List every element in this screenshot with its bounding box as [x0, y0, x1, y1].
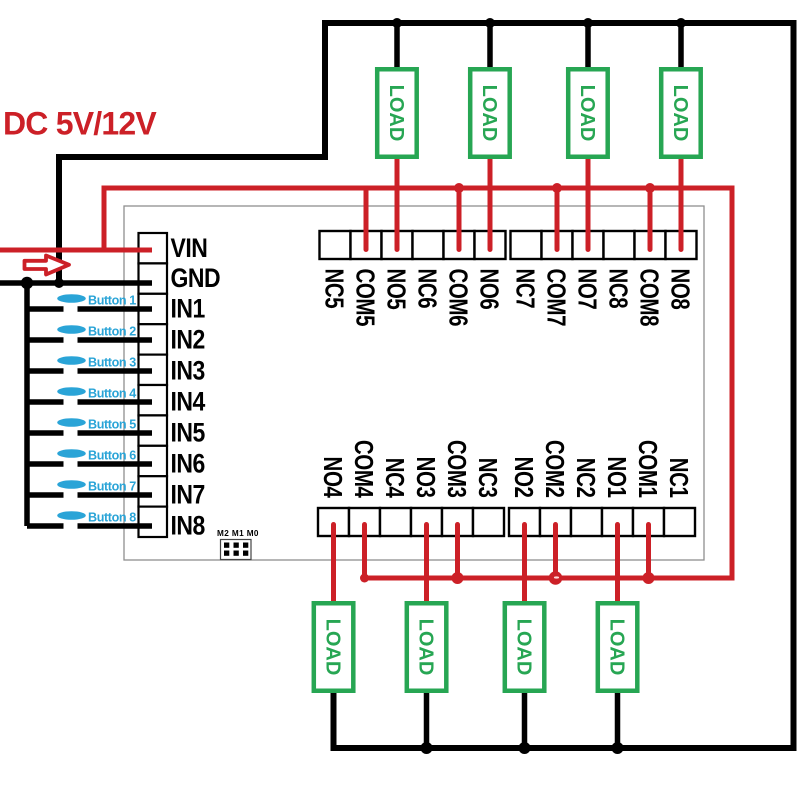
- wire: red NO2 terminal to LOAD2: [522, 525, 527, 602]
- terminal NO2 box: [509, 508, 540, 536]
- wire: red COM1 terminal to bottom COM rail: [646, 525, 651, 579]
- svg-text:NO3: NO3: [412, 457, 441, 498]
- svg-text:NC2: NC2: [572, 458, 601, 498]
- svg-text:NO4: NO4: [319, 457, 348, 498]
- button actuator Button 6: [57, 449, 86, 458]
- pin IN5 header box: [139, 415, 168, 445]
- load L7: [568, 69, 608, 157]
- wire: red VIN horizontal (DC+ input): [0, 248, 152, 253]
- junction: bottom rail / LOAD2: [519, 742, 531, 754]
- terminal COM3 box: [442, 508, 473, 536]
- button switch Button 8 wire segments: [27, 523, 152, 529]
- pin IN7 header box: [139, 476, 168, 506]
- svg-text:NO8: NO8: [666, 269, 695, 310]
- junction: bottom rail / LOAD1: [612, 742, 624, 754]
- svg-text:NC6: NC6: [413, 269, 442, 309]
- svg-text:LOAD: LOAD: [513, 619, 535, 676]
- terminal NC6 box: [413, 231, 444, 259]
- svg-text:COM3: COM3: [443, 440, 472, 498]
- terminal COM6 box: [444, 231, 475, 259]
- svg-text:IN1: IN1: [171, 294, 206, 324]
- button switch Button 5 wire segments: [27, 430, 152, 436]
- button switch Button 3 wire segments: [27, 368, 152, 374]
- pin IN4 header box: [139, 385, 168, 415]
- wire: black drop from LOAD2 to bottom rail: [522, 693, 528, 748]
- wire: red COM4 terminal to bottom COM rail: [362, 525, 367, 579]
- svg-text:NO7: NO7: [573, 269, 602, 310]
- terminal NC7 box: [511, 231, 542, 259]
- svg-text:COM5: COM5: [351, 269, 380, 327]
- power input arrow: [25, 256, 70, 275]
- terminal COM8 box: [635, 231, 666, 259]
- svg-text:NO6: NO6: [475, 268, 504, 309]
- terminal NC1 box: [664, 508, 695, 536]
- svg-text:NO1: NO1: [603, 457, 632, 498]
- svg-text:NO2: NO2: [510, 457, 539, 498]
- svg-text:Button 1: Button 1: [88, 294, 136, 308]
- load L3: [407, 603, 447, 691]
- wire: black drop from top rail to LOAD5: [394, 23, 400, 67]
- svg-text:NC3: NC3: [474, 458, 503, 498]
- svg-text:LOAD: LOAD: [478, 85, 500, 142]
- svg-text:COM6: COM6: [444, 269, 473, 327]
- wire: red NO3 terminal to LOAD3: [424, 525, 429, 602]
- junction: top rail / LOAD6: [485, 18, 495, 28]
- wire: red drop COM rail to COM6 terminal: [457, 188, 462, 250]
- terminal NC3 box: [473, 508, 504, 536]
- svg-text:LOAD: LOAD: [669, 85, 691, 142]
- load L4: [314, 603, 354, 691]
- svg-text:Button 3: Button 3: [88, 356, 136, 370]
- pin IN2 header box: [139, 324, 168, 354]
- junction: GND / supply negative: [54, 278, 64, 288]
- terminal COM2 box: [540, 508, 571, 536]
- button actuator Button 3: [57, 356, 86, 365]
- svg-text:Button 8: Button 8: [88, 511, 136, 525]
- svg-text:IN2: IN2: [171, 325, 205, 355]
- button actuator Button 1: [57, 294, 86, 303]
- wire: black drop from LOAD1 to bottom rail: [615, 693, 621, 748]
- terminal NC8 box: [604, 231, 635, 259]
- svg-text:Button 5: Button 5: [88, 418, 136, 432]
- terminal NO8 box: [666, 231, 697, 259]
- terminal NO7 box: [573, 231, 604, 259]
- button switch Button 6 wire segments: [27, 461, 152, 467]
- button actuator Button 4: [57, 387, 86, 396]
- button actuator Button 7: [57, 480, 86, 489]
- junction: bottom COM rail / COM1: [643, 572, 655, 584]
- wire: red COM2 terminal to bottom COM rail: [553, 525, 558, 579]
- svg-text:COM1: COM1: [634, 440, 663, 498]
- svg-text:COM4: COM4: [350, 440, 379, 498]
- svg-text:M2 M1 M0: M2 M1 M0: [217, 529, 259, 538]
- button actuator Button 2: [57, 325, 86, 334]
- junction: bottom COM rail / COM2 (hollow): [549, 571, 563, 585]
- terminal NO6 box: [475, 231, 506, 259]
- terminal NO4 box: [318, 508, 349, 536]
- terminal COM7 box: [542, 231, 573, 259]
- svg-text:LOAD: LOAD: [322, 619, 344, 676]
- svg-text:NC5: NC5: [320, 269, 349, 309]
- svg-text:COM7: COM7: [542, 269, 571, 327]
- svg-text:LOAD: LOAD: [606, 619, 628, 676]
- pin VIN header box: [139, 233, 168, 263]
- svg-text:NC4: NC4: [381, 458, 410, 498]
- wire: red LOAD5 to NO5 terminal: [395, 159, 400, 250]
- junction: top rail / LOAD8: [676, 18, 686, 28]
- jumper mode header pins: [221, 540, 252, 560]
- terminal COM5 box: [351, 231, 382, 259]
- junction: top rail / LOAD7: [583, 18, 593, 28]
- svg-text:COM8: COM8: [635, 269, 664, 327]
- junction: COM rail / COM6: [454, 183, 464, 193]
- svg-text:IN5: IN5: [171, 418, 206, 448]
- wire: red LOAD8 to NO8 terminal: [679, 159, 684, 250]
- wire: red NO4 terminal to LOAD4: [331, 525, 336, 602]
- svg-text:NC8: NC8: [604, 269, 633, 309]
- terminal NC5 box: [320, 231, 351, 259]
- load L6: [470, 69, 510, 157]
- load L1: [598, 603, 638, 691]
- terminal NO5 box: [382, 231, 413, 259]
- module board outline: [124, 206, 704, 560]
- wire: red COM3 terminal to bottom COM rail: [455, 525, 460, 579]
- button actuator Button 8: [57, 511, 86, 520]
- pin IN3 header box: [139, 355, 168, 385]
- junction: bottom COM rail / COM3: [452, 572, 464, 584]
- button switch Button 1 wire segments: [27, 306, 152, 312]
- svg-text:Button 2: Button 2: [88, 325, 136, 339]
- svg-text:IN6: IN6: [171, 449, 206, 479]
- svg-text:LOAD: LOAD: [385, 85, 407, 142]
- svg-text:IN8: IN8: [171, 511, 206, 541]
- junction: bottom rail / LOAD3: [421, 742, 433, 754]
- junction: top rail / LOAD5: [392, 18, 402, 28]
- svg-text:GND: GND: [171, 263, 221, 293]
- wire: red drop COM rail to COM5 terminal: [364, 188, 369, 250]
- terminal COM1 box: [633, 508, 664, 536]
- junction: COM rail / COM8: [645, 183, 655, 193]
- terminal NO3 box: [411, 508, 442, 536]
- svg-text:Button 4: Button 4: [88, 387, 136, 401]
- wire: red LOAD7 to NO7 terminal: [586, 159, 591, 250]
- button actuator Button 5: [57, 418, 86, 427]
- junction: bottom COM rail / COM4: [360, 574, 369, 583]
- wire: black drop from top rail to LOAD8: [678, 23, 684, 67]
- wire: black drop from top rail to LOAD6: [487, 23, 493, 67]
- terminal COM4 box: [349, 508, 380, 536]
- button switch Button 2 wire segments: [27, 337, 152, 343]
- svg-text:DC 5V/12V: DC 5V/12V: [3, 106, 157, 142]
- svg-text:VIN: VIN: [171, 233, 208, 263]
- button switch Button 4 wire segments: [27, 399, 152, 405]
- svg-text:IN3: IN3: [171, 356, 206, 386]
- svg-text:IN7: IN7: [171, 480, 205, 510]
- wire: red drop COM rail to COM8 terminal: [648, 188, 653, 250]
- svg-text:LOAD: LOAD: [415, 619, 437, 676]
- terminal NC4 box: [380, 508, 411, 536]
- pin IN1 header box: [139, 294, 168, 324]
- wire: red drop COM rail to COM7 terminal: [555, 188, 560, 250]
- svg-text:IN4: IN4: [171, 387, 206, 417]
- svg-text:COM2: COM2: [541, 440, 570, 498]
- wire: black drop from top rail to LOAD7: [585, 23, 591, 67]
- wire: button common bus: [24, 283, 30, 526]
- svg-text:LOAD: LOAD: [576, 85, 598, 142]
- svg-text:NC7: NC7: [511, 269, 540, 309]
- wire: black drop from LOAD3 to bottom rail: [424, 693, 430, 748]
- load L2: [505, 603, 545, 691]
- terminal NO1 box: [602, 508, 633, 536]
- terminal NC2 box: [571, 508, 602, 536]
- svg-text:NC1: NC1: [665, 458, 694, 498]
- junction: COM rail / COM7: [552, 183, 562, 193]
- wire: red NO1 terminal to LOAD1: [615, 525, 620, 602]
- button switch Button 7 wire segments: [27, 492, 152, 498]
- pin GND header box: [139, 263, 168, 293]
- svg-text:Button 6: Button 6: [88, 449, 136, 463]
- load L5: [377, 69, 417, 157]
- load L8: [661, 69, 701, 157]
- wire: GND pin horizontal: [0, 280, 152, 286]
- pin IN6 header box: [139, 446, 168, 476]
- svg-text:NO5: NO5: [382, 269, 411, 310]
- wire: red LOAD6 to NO6 terminal: [488, 159, 493, 250]
- svg-text:Button 7: Button 7: [88, 480, 136, 494]
- junction: GND / button bus: [21, 277, 33, 289]
- pin IN8 header box: [139, 507, 168, 537]
- wire: red supply positive bus (riser, top COM rail, right side, bottom COM rail): [104, 188, 732, 578]
